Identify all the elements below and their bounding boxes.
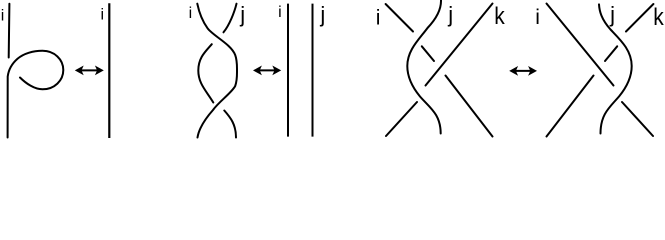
svg-text:i: i [278,4,282,21]
svg-text:i: i [376,6,381,29]
svg-text:j: j [239,2,245,27]
svg-text:k: k [653,4,664,31]
svg-text:i: i [535,6,540,29]
svg-text:j: j [447,2,453,27]
svg-text:j: j [319,2,325,27]
svg-text:i: i [1,8,5,25]
svg-text:i: i [189,5,193,22]
svg-text:j: j [609,2,615,27]
svg-text:i: i [101,7,105,24]
svg-text:k: k [494,3,505,30]
